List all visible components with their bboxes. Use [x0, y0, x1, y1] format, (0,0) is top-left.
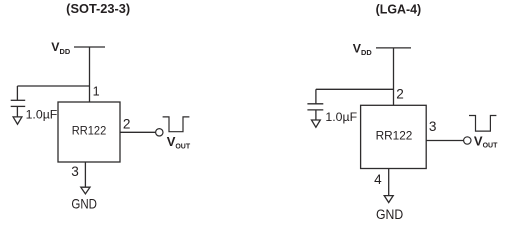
wire capacitor to ground	[16, 106, 18, 116]
IC U1 RR122 body (SOT-23-3)	[58, 102, 120, 162]
svg-text:(LGA-4): (LGA-4)	[376, 3, 422, 17]
wire pin 3 to ground	[84, 162, 86, 187]
svg-text:3: 3	[71, 164, 79, 179]
wire VDD node to capacitor (right)	[316, 88, 394, 90]
svg-text:2: 2	[396, 87, 404, 102]
wire down to capacitor C1	[16, 86, 18, 100]
svg-text:GND: GND	[376, 207, 403, 223]
wire VDD to pin 2	[393, 48, 395, 105]
output terminal circle (left)	[156, 129, 163, 136]
IC U2 RR122 body (LGA-4)	[361, 105, 427, 168]
capacitor C2 top plate	[307, 103, 323, 105]
svg-text:VDD: VDD	[353, 41, 373, 57]
output waveform symbol (left)	[163, 117, 190, 132]
wire down to capacitor C2	[315, 89, 317, 104]
wire capacitor C2 to ground	[315, 110, 317, 120]
svg-text:VOUT: VOUT	[474, 133, 498, 149]
capacitor C1 bottom plate	[11, 105, 26, 107]
VDD power rail bar (right)	[376, 47, 411, 49]
wire pin 4 to ground	[388, 169, 390, 196]
svg-text:3: 3	[429, 119, 437, 134]
output waveform symbol (right)	[469, 116, 496, 132]
svg-text:(SOT-23-3): (SOT-23-3)	[66, 2, 130, 16]
ground (capacitor C1)	[13, 117, 22, 124]
output terminal circle (right)	[464, 137, 471, 144]
svg-text:1.0µF: 1.0µF	[26, 107, 58, 121]
ground (U1 pin 3)	[81, 187, 90, 194]
svg-text:GND: GND	[71, 197, 97, 212]
svg-text:2: 2	[123, 117, 131, 132]
VDD power rail bar (left)	[74, 46, 105, 48]
svg-text:VDD: VDD	[51, 40, 71, 56]
wire pin 3 output (right)	[426, 140, 463, 142]
svg-text:VOUT: VOUT	[167, 134, 191, 150]
svg-text:1.0µF: 1.0µF	[325, 110, 357, 124]
svg-text:1: 1	[93, 85, 100, 99]
capacitor C2 bottom plate	[307, 109, 323, 111]
svg-text:4: 4	[374, 172, 382, 187]
wire VDD to pin 1	[89, 47, 91, 102]
svg-text:RR122: RR122	[376, 129, 413, 143]
ground (capacitor C2)	[312, 120, 321, 127]
svg-text:RR122: RR122	[72, 124, 107, 138]
ground (U2 pin 4)	[384, 196, 393, 203]
capacitor C1 top plate	[11, 99, 26, 101]
wire VDD node to capacitor	[17, 85, 89, 87]
wire pin 2 output	[120, 131, 155, 133]
